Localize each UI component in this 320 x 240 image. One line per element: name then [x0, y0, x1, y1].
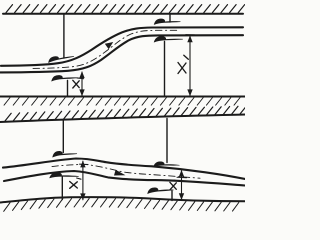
- station line to bottom wall, lower channel right: [171, 191, 173, 201]
- flow arrowhead on jet axis, lower channel: [114, 170, 126, 176]
- bottom wall of upper channel: [0, 96, 245, 98]
- label X_n glyph (rotated): [178, 55, 188, 73]
- station line from top wall, lower channel left: [62, 121, 64, 153]
- velocity arrow above jet, upper channel right: [154, 19, 181, 25]
- velocity arrow above jet, upper channel left: [48, 54, 75, 63]
- velocity arrow below jet, upper channel left: [51, 75, 78, 82]
- tick on x_b arrow (axis crossing): [177, 176, 187, 178]
- jet upper boundary, upper channel: [1, 27, 243, 66]
- flow arrowhead on rising jet axis, upper channel: [105, 42, 113, 49]
- velocity arrow above jet, lower channel left: [52, 151, 77, 158]
- station line from top wall, upper channel left: [63, 14, 65, 58]
- label x_v glyph: [73, 80, 79, 88]
- jet axis dash-dot line, upper channel: [33, 30, 178, 68]
- hatching above top wall, upper channel: [6, 5, 245, 13]
- velocity arrow above jet, lower channel right: [153, 161, 179, 168]
- dimension arrow x_b (jet to bottom wall, lower channel right): [179, 170, 184, 200]
- hatching above top wall, lower channel: [5, 106, 246, 121]
- label x_d overbar: [77, 178, 81, 179]
- station line from top wall, lower channel right: [166, 119, 168, 163]
- top wall of upper channel: [3, 13, 243, 15]
- label x_d glyph: [70, 182, 78, 189]
- jet lower boundary, lower channel: [4, 171, 245, 186]
- dimension arrow x_d (jet to bottom wall, lower channel left): [80, 161, 85, 201]
- label x_b overbar: [174, 180, 180, 181]
- jet axis dash-dot line, lower channel: [52, 164, 200, 178]
- velocity arrow below jet, upper channel right: [154, 36, 183, 42]
- tick at top of X_n arrow: [186, 34, 195, 36]
- hatching below bottom wall, lower channel: [4, 198, 239, 211]
- station line to bottom wall, lower channel left: [61, 177, 63, 200]
- label x_v overbar: [77, 77, 84, 80]
- label x_b glyph: [170, 182, 176, 190]
- dimension arrow x_v (jet to bottom wall, upper channel left): [79, 71, 84, 96]
- top wall of lower channel: [0, 115, 245, 123]
- velocity arrow below jet, lower channel left: [49, 172, 79, 180]
- velocity arrow below jet, lower channel right: [147, 187, 174, 194]
- bottom wall of lower channel: [0, 197, 245, 202]
- dimension arrow X_n (jet to bottom wall, upper channel right): [187, 36, 192, 97]
- tick on x_d arrow (axis crossing): [80, 163, 89, 165]
- station line from top wall, upper channel right: [169, 14, 171, 22]
- jet upper boundary, lower channel: [3, 159, 245, 180]
- jet lower boundary, upper channel: [0, 35, 243, 72]
- station line to bottom wall, upper channel left: [67, 81, 69, 97]
- hatching below bottom wall, upper channel: [4, 98, 240, 106]
- station line to bottom wall, upper channel right: [164, 42, 166, 97]
